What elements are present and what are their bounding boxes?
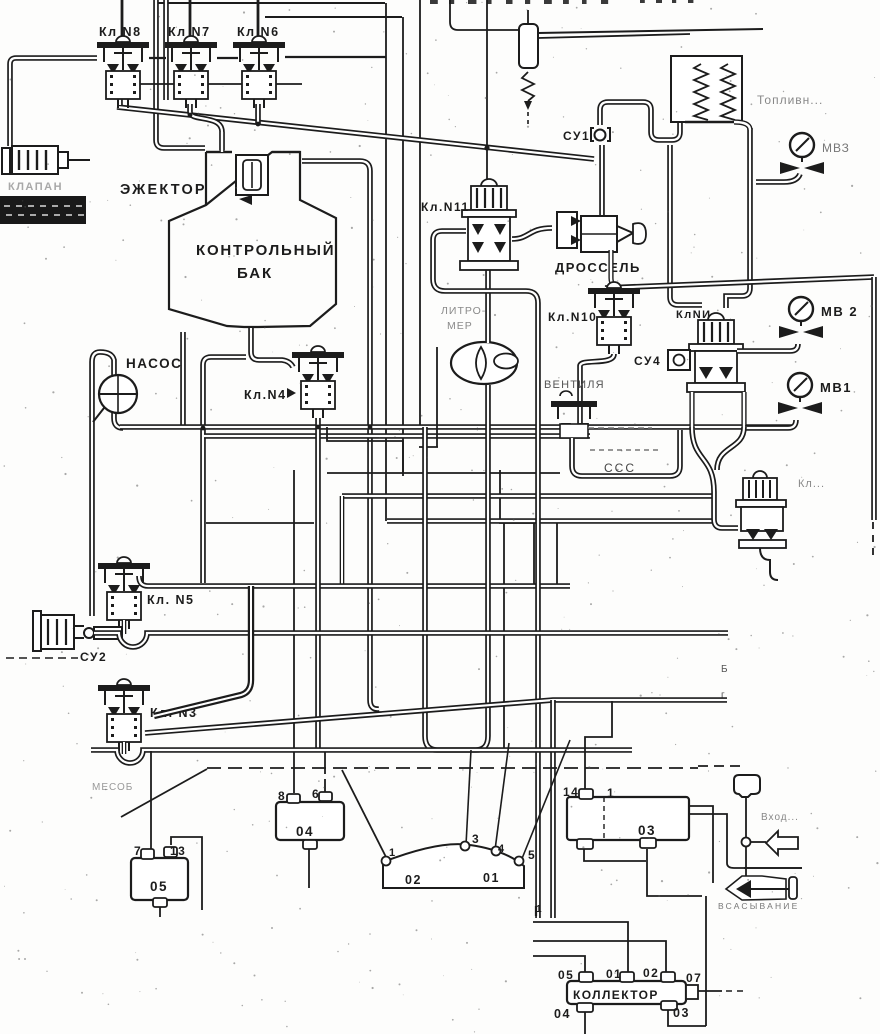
gauge MV2: [779, 297, 823, 338]
wire collector 03 loop: [668, 1010, 706, 1026]
svg-text:Топливн...: Топливн...: [757, 93, 823, 107]
pipe vertical x203: [203, 357, 246, 583]
block 03: [567, 789, 689, 849]
wire box link N6 right: [275, 83, 302, 85]
small vent valve: [551, 391, 597, 438]
throttle DROSSEL: [557, 212, 646, 252]
pipe main run A y427: [120, 424, 793, 430]
block arrow left: [766, 831, 798, 855]
pipe NI left leg: [689, 392, 694, 427]
gauge MV1: [778, 373, 822, 414]
pipe run y521: [387, 518, 714, 524]
wire valve N6 right to x386: [285, 56, 386, 58]
wire to block04 pin6 lower: [324, 752, 326, 792]
wire block05 stem: [159, 907, 161, 917]
pipe radiator corner: [734, 122, 750, 130]
wire right edge dashes: [872, 522, 874, 560]
pipe into tank inlet: [219, 132, 224, 152]
pipe sloped run y733-700: [145, 700, 727, 733]
svg-text:4: 4: [498, 843, 506, 855]
svg-text:01: 01: [606, 967, 622, 981]
svg-text:Кл.N10: Кл.N10: [548, 310, 597, 324]
pipe vent loop: [572, 430, 680, 476]
pipe tank bottom-left down: [180, 332, 186, 426]
valve Kl.NI: [687, 313, 745, 392]
svg-text:8: 8: [278, 789, 286, 803]
svg-text:04: 04: [554, 1007, 571, 1021]
wire left unit stub: [68, 159, 90, 161]
pipe U flowmeter return: [425, 385, 488, 750]
svg-text:КОЛЛЕКТОР: КОЛЛЕКТОР: [573, 988, 659, 1002]
wire jog x327-x403: [327, 427, 403, 472]
wire vertical x386: [385, 3, 387, 521]
svg-text:5: 5: [528, 848, 536, 862]
wire diagonal to manifold pin1: [342, 770, 387, 859]
control tank outline: [169, 152, 336, 327]
wire leader 4: [495, 743, 509, 850]
arrow label N4: [287, 388, 296, 398]
wire vertical x420: [419, 0, 421, 427]
wire bell stem: [745, 797, 747, 880]
wire dashed run y767: [207, 767, 698, 769]
radiator heat exchanger: [671, 56, 742, 122]
svg-text:Кл N7: Кл N7: [168, 25, 211, 39]
pipe N3 stem: [122, 742, 127, 754]
svg-text:13: 13: [170, 844, 186, 858]
pump: [93, 375, 137, 422]
svg-text:ДРОССЕЛЬ: ДРОССЕЛЬ: [555, 260, 641, 275]
wire 07 dashes: [726, 990, 746, 992]
wire top horizontal 2: [265, 16, 402, 18]
pipe valve N11 to flowmeter: [485, 270, 491, 343]
valve Kl.N5: [98, 557, 150, 629]
wire leader 3: [466, 750, 471, 845]
pipe long diagonal to SU1: [117, 107, 594, 159]
pipe radiator left down: [670, 145, 702, 305]
svg-text:ССС: ССС: [604, 461, 636, 475]
svg-text:1: 1: [389, 847, 397, 859]
valve Kl.N6: [233, 36, 285, 108]
unit SU2: [33, 611, 122, 651]
pipe throttle to run: [611, 250, 620, 287]
wire to block05 pin7: [150, 751, 152, 849]
svg-text:02: 02: [643, 966, 659, 980]
wire riser valve N6: [257, 0, 260, 37]
svg-text:Кл N8: Кл N8: [99, 25, 142, 39]
wire long top right 2: [538, 34, 690, 38]
junction dots: [201, 426, 206, 431]
wire vertical x294 to block 04: [293, 470, 295, 793]
svg-text:КлNИ: КлNИ: [676, 309, 712, 321]
SU1 flanges: [591, 128, 610, 141]
wire collector 02: [533, 941, 666, 972]
svg-text:7: 7: [134, 844, 142, 858]
valve Kl.N3: [98, 679, 150, 751]
wire leader 5: [521, 740, 570, 861]
manifold pin 5: [515, 857, 524, 866]
handwritten smudge rows: [588, 427, 652, 429]
pipe end tick: [535, 906, 537, 916]
cropped title text top: [430, 0, 693, 4]
svg-text:03: 03: [638, 823, 656, 838]
svg-text:04: 04: [296, 824, 314, 839]
svg-text:6: 6: [312, 787, 320, 801]
pipe N10 down: [580, 354, 614, 428]
pipe main run B y436: [204, 433, 590, 439]
svg-text:01: 01: [483, 871, 500, 885]
pipe SU1 down to throttle: [599, 145, 605, 215]
block 05: [131, 847, 188, 907]
wire riser valve N8: [121, 0, 124, 37]
svg-text:Б: Б: [721, 664, 728, 675]
pipe valve N7 drop to tank: [190, 104, 222, 150]
pipe right edge vertical: [871, 277, 877, 520]
wire run y473: [327, 472, 560, 474]
ejector device: [236, 155, 268, 205]
wire block03 to arrow: [689, 806, 713, 883]
pipe top pair to tank: [156, 0, 205, 148]
wire block04 stem: [308, 849, 310, 888]
svg-text:КЛАПАН: КЛАПАН: [8, 181, 63, 193]
pipe tank right outlet down: [302, 161, 379, 709]
SU1 circle: [595, 130, 606, 141]
pump loop pipe: [92, 352, 123, 616]
wire diagonal to dashed run: [121, 769, 207, 817]
pipe valve N8 to left unit: [10, 58, 97, 146]
svg-text:Кл. N5: Кл. N5: [147, 593, 195, 607]
pipe N5 stem: [122, 620, 127, 634]
svg-text:МВ1: МВ1: [820, 380, 852, 395]
svg-text:СУ1: СУ1: [563, 129, 590, 143]
svg-text:ЭЖЕКТОР: ЭЖЕКТОР: [120, 182, 207, 198]
wire block03 to y868: [689, 814, 802, 868]
manifold pin 1: [382, 857, 391, 866]
pipe tank bottom to valve N4: [251, 328, 293, 367]
svg-text:05: 05: [150, 879, 168, 894]
wire block05 pin13 loop: [171, 837, 202, 910]
svg-text:МЕР: МЕР: [447, 320, 473, 332]
suction arrow assembly: [726, 876, 797, 900]
wire valve N8 drop: [117, 98, 123, 105]
left suction valve unit: [2, 146, 68, 174]
svg-text:СУ4: СУ4: [634, 354, 661, 368]
pipe valve N6 drop: [255, 104, 261, 124]
pipe MV1 tee: [745, 420, 796, 428]
wire vertical x706: [705, 896, 707, 1026]
filter cartridge: [519, 10, 538, 124]
pipe N11 to throttle: [512, 228, 552, 239]
svg-text:Вход...: Вход...: [761, 812, 799, 823]
pipe S right: [717, 427, 744, 470]
valve Kl.N8: [97, 36, 149, 108]
tank inlet notch: [206, 152, 300, 205]
wire top horizontal: [155, 2, 385, 4]
wire valve N7 right stub: [217, 57, 238, 59]
svg-text:02: 02: [405, 873, 422, 887]
wire block03 pin14 up: [585, 701, 612, 789]
svg-text:ВСАСЫВАНИЕ: ВСАСЫВАНИЕ: [718, 901, 799, 911]
svg-text:1: 1: [536, 904, 543, 915]
pipe radiator right down: [726, 128, 750, 308]
pipe SU1 up to radiator: [600, 102, 680, 140]
wire y523 segment: [206, 522, 314, 524]
wire vertical x504: [503, 523, 505, 750]
pipe valve N4 stem down: [315, 418, 321, 750]
wire box link N8-N7: [139, 83, 176, 85]
pipe into valve N9: [714, 519, 738, 528]
svg-text:СУ2: СУ2: [80, 650, 107, 664]
wire vertical to valve N11: [486, 0, 488, 186]
svg-text:Кл.N11: Кл.N11: [421, 200, 470, 214]
wire y447 stub: [419, 446, 438, 448]
pipe MV2 tee: [737, 344, 798, 351]
collector block: [567, 972, 698, 1012]
pipe run y633 SU2 to right: [94, 633, 728, 647]
wire y868: [744, 867, 802, 869]
pipe NI right leg: [741, 392, 746, 427]
valve Kl.N4: [292, 346, 344, 418]
svg-text:ЛИТРО-: ЛИТРО-: [441, 305, 486, 317]
pipe S left: [692, 427, 714, 519]
pipe x553 down: [550, 700, 556, 918]
wire vertical x437: [436, 347, 438, 447]
valve Kl.N9: [736, 471, 786, 580]
svg-text:ВЕНТИЛЯ: ВЕНТИЛЯ: [544, 379, 605, 391]
wire collector 04 down: [584, 1012, 586, 1034]
pipe N11 left down to collector: [433, 231, 538, 918]
pipe MV3 tee: [756, 174, 800, 182]
wire long top right 1: [538, 29, 763, 33]
svg-text:Кл.N4: Кл.N4: [244, 388, 287, 402]
wire box link N7-N6: [207, 83, 244, 85]
svg-text:НАСОС: НАСОС: [126, 356, 182, 371]
svg-text:МВЗ: МВЗ: [822, 141, 850, 155]
svg-text:МЕСОБ: МЕСОБ: [92, 782, 133, 793]
pipe dark to N3: [154, 586, 251, 716]
wire collector 05: [533, 956, 585, 972]
pipe run y496: [342, 493, 714, 499]
svg-text:Кл N6: Кл N6: [237, 25, 280, 39]
svg-text:БАК: БАК: [237, 265, 273, 282]
pipe run y750: [91, 750, 632, 763]
wire block03 bottom left: [584, 849, 646, 861]
manifold pin 3: [461, 842, 470, 851]
svg-text:1: 1: [607, 786, 615, 800]
svg-text:МВ 2: МВ 2: [821, 304, 858, 319]
wire vertical x403: [402, 17, 404, 476]
black label block left: [0, 196, 86, 224]
wire 07 out: [698, 990, 722, 992]
node junction: [742, 838, 751, 847]
pipe run to right edge: [605, 277, 874, 288]
svg-text:КОНТРОЛЬНЫЙ: КОНТРОЛЬНЫЙ: [196, 241, 335, 259]
valve Kl.N10: [588, 282, 640, 354]
valve Kl.N11: [460, 179, 518, 270]
bell fitting: [734, 775, 760, 797]
gauge MV3: [780, 133, 824, 174]
SU4 symbol: [668, 350, 690, 370]
wire x557 drop: [556, 523, 558, 584]
svg-text:14: 14: [563, 785, 579, 799]
wire block03 bottom right: [647, 849, 702, 896]
svg-text:Кл...: Кл...: [798, 478, 825, 490]
pipe top pair second: [163, 0, 169, 100]
pipe run y586: [139, 576, 570, 586]
svg-text:3: 3: [472, 832, 480, 846]
block 04: [276, 792, 344, 849]
svg-text:05: 05: [558, 968, 574, 982]
flow meter litromer: [451, 342, 518, 384]
wire to filter: [450, 0, 519, 30]
manifold pin 4: [492, 847, 501, 856]
dash axis SU2: [6, 657, 78, 659]
wire valve N8 right stub: [149, 57, 166, 59]
wire riser valve N7: [189, 0, 192, 37]
manifold dome: [383, 844, 524, 888]
wire x500 jog: [500, 470, 534, 585]
wire collector 01: [533, 922, 628, 972]
svg-text:03: 03: [673, 1006, 690, 1020]
svg-text:07: 07: [686, 971, 702, 985]
valve Kl.N7: [165, 36, 217, 108]
wire dashed run y766 right: [698, 765, 744, 767]
pipe corner x342 down: [340, 496, 345, 585]
wire node to arrow: [750, 841, 766, 843]
